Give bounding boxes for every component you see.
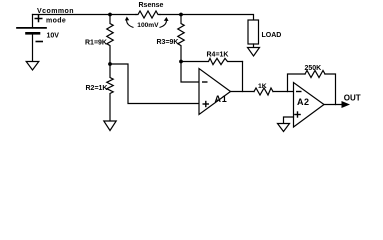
op-amp A1 plus pin (203, 101, 210, 107)
load resistor LOAD (248, 20, 259, 44)
wire A2 output (324, 104, 342, 106)
junction node rail-R3 (179, 13, 183, 17)
wire A2 + input to ground (284, 117, 294, 124)
ground battery (26, 62, 39, 71)
wire top rail right segment (160, 15, 254, 21)
svg-text:mode: mode (46, 18, 66, 25)
svg-text:250K: 250K (305, 65, 322, 72)
ground A2 (278, 124, 290, 132)
resistor R4 (181, 58, 243, 64)
op-amp A1 minus pin (202, 81, 208, 83)
wire battery to ground (32, 33, 34, 61)
battery minus sign (36, 41, 44, 43)
svg-text:R3=9K: R3=9K (157, 39, 179, 46)
wire node to A1 - input (181, 62, 199, 83)
svg-text:A2: A2 (297, 97, 310, 107)
wire A1 output (231, 91, 255, 93)
op-amp A2 (294, 83, 325, 128)
resistor Rsense (136, 11, 160, 18)
wire 1K to A2 - input (273, 91, 294, 93)
wire A2 feedback right leg (325, 74, 336, 105)
resistor R2 (107, 64, 113, 121)
wire LOAD to ground (253, 44, 255, 48)
svg-text:OUT: OUT (344, 93, 361, 102)
svg-text:Vcommon: Vcommon (37, 8, 74, 15)
wire top rail left segment (33, 14, 137, 16)
ground LOAD (248, 48, 260, 57)
junction node R3-R4 (179, 60, 183, 64)
battery plus sign (35, 15, 43, 22)
arrow 100mV left arc (127, 19, 134, 28)
junction node rail-R1 (108, 13, 112, 17)
wire A2 feedback left leg (288, 74, 306, 92)
svg-text:Rsense: Rsense (139, 2, 164, 9)
op-amp A2 minus pin (296, 91, 302, 93)
resistor 250K (305, 71, 325, 78)
op-amp A1 (199, 69, 231, 115)
svg-text:A1: A1 (215, 94, 228, 104)
svg-text:LOAD: LOAD (262, 32, 282, 39)
battery Vcommon long plate (17, 27, 46, 29)
battery Vcommon short plate (27, 32, 40, 35)
junction node R1-R2 (108, 62, 112, 66)
arrow OUT output arrowhead (342, 101, 351, 108)
resistor R1 (107, 15, 113, 65)
resistor R3 (178, 15, 184, 62)
wire node to A1 + input (110, 64, 199, 104)
battery V+ lead (32, 15, 34, 28)
op-amp A2 plus pin (294, 111, 301, 117)
ground R2 (104, 121, 116, 131)
svg-text:1K: 1K (258, 83, 267, 90)
resistor 1K (254, 88, 273, 95)
svg-text:100mV: 100mV (137, 22, 159, 29)
svg-text:10V: 10V (47, 32, 60, 39)
wire R4 feedback to A1 output (242, 62, 244, 92)
svg-text:R2=1K: R2=1K (86, 85, 108, 92)
arrow 100mV right arc (160, 19, 167, 28)
svg-text:R4=1K: R4=1K (207, 52, 229, 59)
svg-text:R1=9K: R1=9K (85, 40, 107, 47)
